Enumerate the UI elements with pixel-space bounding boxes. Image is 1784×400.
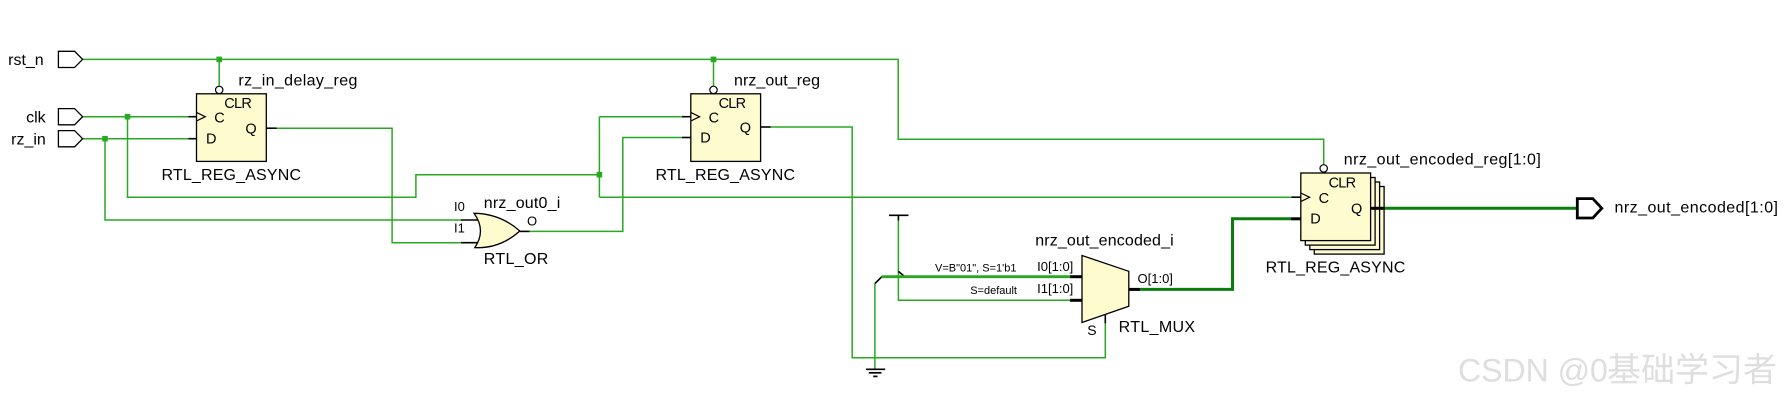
mux nrz_out_encoded_i [1070,256,1140,323]
power tie T-bar [889,214,909,216]
wire net gnd vertical [874,283,876,369]
svg-text:rst_n: rst_n [8,52,44,69]
watermark CJK char 础 [1642,353,1673,384]
junction clk at x599 [597,172,603,178]
wire net const1 from power tie to bus tap and MUX I1 [898,220,1070,300]
watermark CJK char 者 [1744,353,1775,384]
svg-text:RTL_REG_ASYNC: RTL_REG_ASYNC [656,167,796,184]
junction rst_n to CLR1 [216,57,222,63]
svg-text:D: D [1310,212,1320,228]
svg-text:I1[1:0]: I1[1:0] [1037,281,1073,296]
svg-text:CSDN @0: CSDN @0 [1458,353,1608,389]
watermark CJK group [1608,353,1775,385]
power tie stub [897,215,899,220]
svg-text:RTL_REG_ASYNC: RTL_REG_ASYNC [1266,260,1406,277]
wire rz_in branch to OR gate I0 [105,139,461,220]
svg-text:I1: I1 [454,221,465,236]
svg-text:I0: I0 [454,199,465,214]
junction rst_n to CLR2 [711,57,717,63]
input port rst_n [58,51,82,67]
register U2 nrz_out_reg [682,86,771,161]
svg-text:clk: clk [26,109,47,126]
svg-text:C: C [709,110,719,126]
svg-text:S: S [1087,322,1096,338]
svg-text:RTL_OR: RTL_OR [484,251,549,268]
svg-text:RTL_REG_ASYNC: RTL_REG_ASYNC [162,167,302,184]
svg-text:D: D [206,131,216,147]
bus net const B"01" into MUX I0 [882,275,1071,278]
svg-text:CLR: CLR [1329,175,1357,191]
wire clk into reg2 C [599,116,682,118]
junction rz_in [102,136,108,142]
svg-text:RTL_MUX: RTL_MUX [1119,319,1196,336]
black stub into MUX S pin [1104,314,1106,323]
output port nrz_out_encoded[1:0] [1577,199,1602,218]
svg-text:nrz_out_reg: nrz_out_reg [734,73,820,90]
wire net clk from port to reg1 C [83,116,189,118]
input port rz_in [58,131,82,147]
bus tap diagonal gnd to I0 bus [875,277,882,284]
svg-text:O: O [527,214,537,229]
svg-text:C: C [214,110,224,126]
wire net rz_in from port to reg1 D [83,138,189,140]
wire rst_n branch to nrz_out_reg CLR [713,59,715,86]
wire clk branch down and across [128,117,600,198]
svg-text:rz_in: rz_in [11,131,46,148]
register bank U3 nrz_out_encoded_reg[1:0] [1291,165,1384,254]
svg-text:Q: Q [245,122,256,138]
svg-text:C: C [1319,191,1329,207]
svg-text:nrz_out_encoded[1:0]: nrz_out_encoded[1:0] [1615,200,1779,217]
wire clk long run to reg3 C [599,196,1291,198]
watermark CJK char 习 [1713,355,1740,384]
OR gate nrz_out0_i [461,213,530,247]
bus tap diagonal const to I0 bus [898,271,904,276]
svg-text:V=B"01", S=1'b1: V=B"01", S=1'b1 [935,263,1016,275]
wire net Q2 from nrz_out_reg Q to RTL_MUX S [771,127,1106,358]
svg-text:nrz_out_encoded_reg[1:0]: nrz_out_encoded_reg[1:0] [1344,152,1541,169]
junction clk at port branch [125,114,131,120]
ground symbol [866,369,885,376]
input port clk [58,109,82,125]
svg-text:CLR: CLR [224,96,252,112]
bus net O[1:0] from MUX to nrz_out_encoded_reg D [1140,219,1291,290]
register U1 rz_in_delay_reg [189,86,277,161]
bus net Q3 from nrz_out_encoded_reg Q to output port [1384,207,1577,210]
svg-text:D: D [700,130,710,146]
watermark CJK char 基 [1608,353,1640,383]
wire net rst_n trunk [83,59,1324,164]
svg-text:rz_in_delay_reg: rz_in_delay_reg [238,73,357,90]
wire rst_n branch to rz_in_delay_reg CLR [218,59,220,86]
wire clk vertical at x599 [598,117,600,198]
wire net Q1 from rz_in_delay_reg Q to OR gate I1 [277,128,462,243]
watermark CJK char 学 [1677,353,1707,385]
svg-text:Q: Q [740,120,751,136]
svg-text:I0[1:0]: I0[1:0] [1037,259,1073,274]
svg-text:nrz_out_encoded_i: nrz_out_encoded_i [1035,233,1174,250]
svg-text:CLR: CLR [719,96,747,112]
svg-text:nrz_out0_i: nrz_out0_i [484,195,561,212]
svg-text:S=default: S=default [970,285,1017,297]
svg-text:Q: Q [1351,202,1362,218]
svg-text:O[1:0]: O[1:0] [1138,271,1173,286]
wire net nrz_out0 from OR gate O to nrz_out_reg D [529,138,682,232]
